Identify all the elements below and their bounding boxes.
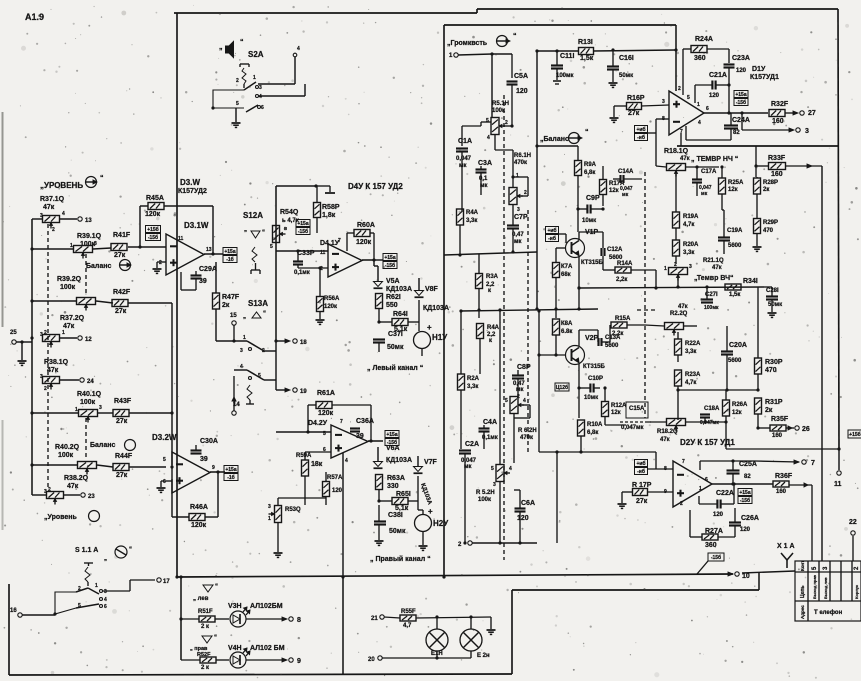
svg-text:Х 1 А: Х 1 А bbox=[777, 543, 795, 550]
svg-text:V2Р: V2Р bbox=[585, 335, 599, 342]
svg-text:R40.1Q: R40.1Q bbox=[77, 391, 102, 398]
svg-text:КТ315Б: КТ315Б bbox=[581, 260, 603, 266]
wire R47F to S13A bbox=[215, 309, 217, 341]
svg-text:R43F: R43F bbox=[114, 398, 132, 405]
wire transistor top rail bbox=[559, 233, 566, 235]
svg-text:5,1к: 5,1к bbox=[395, 505, 409, 512]
resistor R3A 2.2k bbox=[476, 274, 483, 289]
svg-text:2: 2 bbox=[44, 386, 47, 392]
svg-text:R59А: R59А bbox=[296, 453, 312, 459]
wire terminal 16 to switch bbox=[22, 614, 55, 616]
svg-text:-иб: -иб bbox=[637, 134, 645, 141]
svg-text:-1б: -1б bbox=[226, 256, 234, 263]
potentiometer R53Q bbox=[275, 506, 282, 523]
output level boxes D4.1Y bbox=[383, 254, 397, 261]
connector table rows bbox=[795, 571, 861, 573]
svg-text:АЛ102 БМ: АЛ102 БМ bbox=[250, 645, 285, 652]
lamp E2H bbox=[460, 629, 482, 651]
svg-text:+15б: +15б bbox=[147, 226, 159, 233]
wire left bus lower stubs bbox=[32, 494, 46, 496]
svg-text:2: 2 bbox=[517, 394, 520, 400]
wire bottom box left edge bbox=[511, 590, 513, 674]
svg-text:50мк: 50мк bbox=[389, 528, 406, 535]
svg-text:D1У: D1У bbox=[752, 66, 766, 73]
wire C25A loop bbox=[732, 474, 734, 484]
wire D4.2Y input bbox=[276, 431, 331, 433]
svg-text:V3Н: V3Н bbox=[228, 603, 242, 610]
svg-text:+15а: +15а bbox=[225, 467, 236, 473]
svg-text:470к: 470к bbox=[520, 435, 533, 441]
svg-text:47к: 47к bbox=[680, 156, 690, 162]
wire to terminal 10 bbox=[728, 572, 733, 576]
svg-text:120: 120 bbox=[516, 88, 528, 95]
svg-text:8: 8 bbox=[664, 466, 667, 472]
svg-text:0,047мк: 0,047мк bbox=[700, 420, 719, 426]
svg-text:R45A: R45A bbox=[146, 195, 164, 202]
resistor R56A 120k bbox=[317, 297, 324, 312]
svg-text:R51F: R51F bbox=[198, 609, 213, 615]
svg-text:120к: 120к bbox=[324, 304, 337, 310]
svg-text:С19А: С19А bbox=[727, 228, 743, 234]
svg-text:-15б: -15б bbox=[736, 99, 746, 106]
svg-text:2,2к: 2,2к bbox=[612, 331, 623, 337]
svg-text:2 к: 2 к bbox=[201, 624, 209, 630]
ground at D3.1W + input bbox=[157, 261, 166, 263]
svg-text:Конт: Конт bbox=[800, 560, 805, 571]
S12A spring squiggle bbox=[252, 247, 257, 262]
wire R6.1H wiper loop bbox=[521, 195, 528, 197]
svg-text:R32F: R32F bbox=[771, 101, 789, 108]
svg-text:360: 360 bbox=[705, 542, 717, 549]
svg-text:4: 4 bbox=[345, 458, 348, 464]
wire R5.1H wiper to C5A bus bbox=[503, 125, 512, 127]
svg-text:19: 19 bbox=[300, 389, 307, 395]
wire R16P to + input bbox=[614, 105, 627, 107]
svg-text:4: 4 bbox=[297, 46, 300, 52]
svg-text:С9Р: С9Р bbox=[586, 195, 600, 202]
svg-text:12к: 12к bbox=[728, 187, 738, 193]
small cap to ground top right of S12A bus bbox=[316, 185, 330, 187]
terminal 24 bbox=[80, 378, 84, 382]
wire LED feeder vertical bbox=[180, 577, 182, 660]
svg-text:100к: 100к bbox=[478, 497, 491, 503]
S1.1A actuator bracket bbox=[84, 562, 93, 564]
svg-text:7: 7 bbox=[811, 460, 815, 467]
svg-text:27: 27 bbox=[808, 110, 816, 117]
svg-text:R15А: R15А bbox=[615, 316, 631, 322]
wire R17P to + input bbox=[647, 491, 673, 493]
svg-text:7: 7 bbox=[338, 238, 341, 244]
terminal 12 bbox=[78, 336, 82, 340]
resistor R58P 1.8k bbox=[314, 203, 321, 218]
svg-text:100к: 100к bbox=[58, 452, 74, 459]
diode V6A KD103A bbox=[377, 447, 379, 461]
svg-text:R2.2Q: R2.2Q bbox=[670, 311, 688, 317]
wire middle box top edge bbox=[444, 24, 676, 26]
boxed label +15 at right edge bbox=[848, 430, 861, 438]
svg-text:1: 1 bbox=[75, 407, 78, 413]
svg-text:4: 4 bbox=[509, 466, 512, 472]
svg-text:R38.2Q: R38.2Q bbox=[64, 475, 89, 482]
speaker icon bbox=[226, 46, 230, 53]
svg-text:+: + bbox=[427, 323, 432, 332]
svg-text:К8А: К8А bbox=[561, 321, 573, 327]
wire bottom box top edge bbox=[512, 589, 759, 591]
connector X1A fork symbol bbox=[786, 560, 788, 568]
resistor R20A 3.3k bbox=[673, 240, 680, 256]
wire R39.2Q row bbox=[32, 300, 76, 302]
wire R59A/R57A connections bbox=[304, 452, 306, 460]
wire R33F left from supply bbox=[755, 146, 757, 177]
svg-text:С11І: С11І bbox=[560, 53, 574, 60]
wire top frame step bbox=[476, 9, 478, 13]
svg-text:R25А: R25А bbox=[728, 180, 744, 186]
svg-text:+15а: +15а bbox=[739, 490, 750, 496]
svg-text:С36А: С36А bbox=[356, 418, 374, 425]
svg-text:R30Р: R30Р bbox=[765, 359, 783, 366]
wire main left vertical bus bbox=[176, 13, 178, 577]
svg-text:К157УД2: К157УД2 bbox=[178, 188, 207, 195]
wire R40.2Q row bbox=[32, 464, 77, 466]
ground left of R17P bbox=[621, 492, 623, 503]
output level boxes D3.1W bbox=[223, 248, 237, 255]
svg-text:47к: 47к bbox=[712, 265, 722, 271]
svg-text:D4.1У: D4.1У bbox=[320, 240, 340, 247]
knob icon S1.1A bbox=[115, 546, 127, 558]
svg-text:С20А: С20А bbox=[729, 342, 747, 349]
svg-text:160: 160 bbox=[776, 489, 787, 495]
resistor R63A 330 bbox=[376, 475, 383, 490]
wire V2P base bbox=[539, 354, 566, 356]
wire R42F to D3.2W input bus bbox=[128, 302, 172, 304]
svg-text:3: 3 bbox=[689, 264, 692, 270]
svg-text:6: 6 bbox=[706, 106, 709, 112]
svg-text:„Громквсть: „Громквсть bbox=[447, 40, 488, 47]
svg-text:2: 2 bbox=[524, 190, 527, 196]
wire D4.2Y pin4 to supply rail bbox=[342, 453, 344, 577]
svg-text:R35F: R35F bbox=[771, 416, 789, 423]
svg-text:330: 330 bbox=[387, 483, 399, 490]
wire LED V4H to terminal 9 bbox=[246, 659, 283, 661]
svg-text:+: + bbox=[428, 507, 433, 516]
svg-text:R4А: R4А bbox=[487, 325, 500, 331]
svg-text:С16І: С16І bbox=[619, 55, 634, 62]
svg-text:18к: 18к bbox=[311, 461, 323, 468]
wire D3.1W output bbox=[204, 253, 223, 255]
svg-text:1,8к: 1,8к bbox=[322, 212, 336, 219]
svg-text:82: 82 bbox=[733, 130, 740, 136]
svg-text:R20А: R20А bbox=[683, 242, 699, 248]
wire R24A loop bbox=[683, 48, 691, 50]
wire bass pot2 row bbox=[648, 421, 666, 423]
svg-text:1: 1 bbox=[516, 173, 519, 179]
svg-text:S2A: S2A bbox=[248, 50, 264, 59]
svg-text:6: 6 bbox=[261, 105, 264, 111]
svg-text:3,3к: 3,3к bbox=[466, 218, 477, 224]
svg-text:Цепь: Цепь bbox=[800, 585, 806, 598]
wire D2Y output bbox=[712, 483, 773, 485]
svg-text:“: “ bbox=[513, 33, 517, 40]
svg-text:D4.2У: D4.2У bbox=[308, 420, 328, 427]
svg-text:Баланс: Баланс bbox=[86, 263, 111, 270]
svg-text:R44F: R44F bbox=[115, 453, 133, 460]
svg-text:R56А: R56А bbox=[324, 296, 340, 302]
output level boxes D4.2Y bbox=[385, 431, 399, 438]
svg-text:4: 4 bbox=[523, 398, 526, 404]
svg-text:3: 3 bbox=[240, 348, 243, 354]
svg-text:3,3к: 3,3к bbox=[685, 349, 696, 355]
connector table columns bbox=[807, 561, 809, 621]
wire R33F row bbox=[756, 165, 768, 167]
power pin boxes D3.1W bbox=[146, 226, 161, 233]
svg-text:16: 16 bbox=[10, 608, 17, 614]
svg-text:6,8к: 6,8к bbox=[584, 170, 595, 176]
wire R38.1Q to terminal 24 bbox=[60, 379, 79, 381]
svg-text:39: 39 bbox=[200, 456, 208, 463]
svg-text:3,3к: 3,3к bbox=[467, 384, 478, 390]
label LEV channel symbol bbox=[203, 585, 213, 592]
svg-text:47к: 47к bbox=[63, 323, 75, 330]
svg-text:КТ315Б: КТ315Б bbox=[583, 364, 605, 370]
svg-text:1: 1 bbox=[243, 335, 246, 341]
svg-text:3: 3 bbox=[104, 589, 107, 595]
svg-text:4,7к: 4,7к bbox=[683, 222, 694, 228]
svg-text:120: 120 bbox=[713, 512, 724, 518]
LED V4H AL102BM bbox=[230, 652, 246, 668]
wire right vertical to connector bbox=[821, 166, 823, 561]
svg-text:25: 25 bbox=[10, 330, 17, 336]
wire volume bus vertical bbox=[491, 54, 493, 118]
svg-text:6: 6 bbox=[163, 479, 166, 485]
svg-text:V6А: V6А bbox=[386, 445, 400, 452]
wire D3.2W output bbox=[210, 471, 225, 473]
svg-text:R 6.2Н: R 6.2Н bbox=[518, 428, 537, 434]
svg-text:R10А: R10А bbox=[587, 422, 603, 428]
svg-text:С22А: С22А bbox=[716, 490, 734, 497]
wire R5.2H to terminal 2 rail bbox=[499, 482, 501, 543]
svg-text:S12A: S12A bbox=[243, 211, 263, 220]
wire middle box left edge bbox=[443, 25, 445, 577]
svg-text:120к: 120к bbox=[356, 239, 372, 246]
wire output vertical to connector bbox=[811, 485, 813, 561]
resistor R47F 2k bbox=[213, 293, 220, 309]
svg-text:С4А: С4А bbox=[483, 419, 497, 426]
svg-text:100к: 100к bbox=[80, 399, 96, 406]
svg-text:13: 13 bbox=[85, 218, 92, 224]
wire R36F output to right bbox=[789, 484, 812, 486]
resistor R10A 6.8k bbox=[578, 420, 585, 436]
svg-text:“: “ bbox=[214, 635, 217, 641]
diode V5A KD103A bbox=[373, 260, 375, 266]
svg-text:10: 10 bbox=[742, 573, 750, 580]
wire treble pot2 row bbox=[645, 325, 664, 326]
svg-text:С2А: С2А bbox=[465, 441, 479, 448]
svg-text:20: 20 bbox=[368, 657, 375, 663]
resistor R7A 68k bbox=[553, 263, 560, 278]
wire horizontal to border node bbox=[726, 448, 839, 450]
wire lamp top rail bbox=[384, 617, 400, 618]
svg-text:R36F: R36F bbox=[775, 473, 793, 480]
svg-text:A1.9: A1.9 bbox=[25, 12, 44, 22]
wire left bus vertical bbox=[31, 219, 33, 495]
svg-text:С15А: С15А bbox=[629, 406, 645, 412]
svg-text:12к: 12к bbox=[732, 410, 742, 416]
wire C21A loop bbox=[695, 84, 712, 86]
svg-text:R58Р: R58Р bbox=[322, 204, 340, 211]
terminal 23 bbox=[81, 493, 85, 497]
dashed gang line volume pots bbox=[503, 95, 505, 560]
svg-text:„Уровень: „Уровень bbox=[44, 514, 77, 521]
svg-text:22: 22 bbox=[849, 519, 857, 526]
wire V1P emitter down bbox=[578, 256, 580, 288]
svg-text:-1б: -1б bbox=[227, 474, 235, 481]
svg-text:R16Р: R16Р bbox=[627, 95, 645, 102]
svg-text:47к: 47к bbox=[47, 367, 59, 374]
svg-text:4: 4 bbox=[240, 364, 243, 370]
svg-text:R5.1Н: R5.1Н bbox=[492, 101, 509, 107]
svg-text:100мк: 100мк bbox=[556, 73, 573, 79]
resistor R30P 470 bbox=[755, 358, 762, 374]
svg-text:Н1У: Н1У bbox=[432, 333, 448, 342]
op-amp D4.1Y bbox=[328, 244, 362, 277]
svg-text:R28Р: R28Р bbox=[763, 180, 778, 186]
wire R9A down bbox=[577, 176, 579, 232]
svg-text:5: 5 bbox=[505, 398, 508, 404]
svg-text:E1Н: E1Н bbox=[431, 651, 443, 657]
wire bottom of output box bbox=[677, 145, 838, 147]
wire R38.2Q to terminal 23 bbox=[64, 494, 80, 496]
wire R45A feedback loop bbox=[140, 205, 148, 207]
terminal 17 bbox=[157, 578, 161, 582]
svg-text:R22А: R22А bbox=[685, 341, 701, 347]
svg-text:V4Н: V4Н bbox=[228, 645, 242, 652]
wire R37.1Q to terminal 13 bbox=[60, 218, 77, 220]
svg-text:V8F: V8F bbox=[425, 286, 439, 293]
wire R7A to mid rail bbox=[555, 278, 557, 309]
svg-text:5600: 5600 bbox=[728, 243, 742, 249]
svg-text:R42F: R42F bbox=[113, 289, 131, 296]
svg-text:27к: 27к bbox=[116, 418, 128, 425]
svg-text:„ Правый канал “: „ Правый канал “ bbox=[370, 555, 431, 563]
LED V3H AL102BM bbox=[230, 611, 246, 627]
svg-text:47к: 47к bbox=[678, 304, 688, 310]
lamp E1H bbox=[426, 629, 448, 651]
wire S2A contact 4 to right rail bbox=[259, 95, 305, 97]
svg-text:0,047мк: 0,047мк bbox=[621, 425, 643, 431]
svg-text:-15б: -15б bbox=[148, 234, 158, 241]
svg-text:„ лев: „ лев bbox=[193, 596, 209, 602]
resistor R12A 12k bbox=[602, 402, 609, 417]
svg-text:21: 21 bbox=[371, 616, 378, 622]
svg-text:2: 2 bbox=[505, 120, 508, 126]
svg-text:10мк: 10мк bbox=[584, 395, 598, 401]
switch S2A contact group bbox=[243, 84, 245, 88]
svg-text:Т елефон: Т елефон bbox=[814, 609, 843, 616]
svg-text:V5А: V5А bbox=[386, 278, 400, 285]
svg-text:R34І: R34І bbox=[743, 278, 758, 285]
wire C22A loop bbox=[699, 503, 717, 505]
svg-text:С3А: С3А bbox=[478, 160, 492, 167]
S13A contact set 1 bbox=[233, 335, 235, 341]
svg-text:мк: мк bbox=[701, 191, 708, 197]
svg-text:100мк: 100мк bbox=[704, 305, 719, 311]
wire V2P emitter down bbox=[578, 364, 580, 418]
wire output down through R47F bbox=[215, 262, 217, 293]
wire lamp bottom rail bbox=[382, 657, 471, 659]
svg-text:1,5к: 1,5к bbox=[580, 55, 594, 62]
svg-text:120: 120 bbox=[736, 68, 747, 74]
scan edge artifact left bbox=[2, 112, 4, 327]
power boxes D1Y bbox=[734, 91, 748, 98]
svg-text:3: 3 bbox=[94, 241, 97, 247]
connector table frame bbox=[795, 561, 861, 621]
svg-text:82: 82 bbox=[744, 474, 751, 480]
svg-text:120: 120 bbox=[332, 488, 343, 494]
boxed label -15b lower bbox=[708, 553, 724, 561]
svg-text:„Темвр ВЧ“: „Темвр ВЧ“ bbox=[694, 275, 734, 282]
svg-text:R 5.2Н: R 5.2Н bbox=[476, 490, 495, 496]
wire top frame left section bbox=[174, 12, 477, 14]
resistor R29P 470 bbox=[754, 219, 761, 234]
potentiometer R6.1H bbox=[509, 188, 517, 205]
svg-text:КД103А: КД103А bbox=[423, 305, 449, 312]
svg-text:2: 2 bbox=[52, 227, 55, 233]
svg-text:1,5к: 1,5к bbox=[729, 292, 740, 298]
ground left of R16P bbox=[613, 106, 615, 117]
svg-text:-15б: -15б bbox=[711, 554, 721, 561]
svg-text:R24А: R24А bbox=[695, 36, 713, 43]
wire R27A loop bbox=[718, 536, 735, 538]
svg-text:50мк: 50мк bbox=[619, 73, 633, 79]
svg-text:+иб: +иб bbox=[636, 460, 645, 467]
wire R5.1H bottom to R6.1H bbox=[494, 135, 496, 150]
resistor R4A' 2.2k bbox=[477, 324, 484, 339]
svg-text:С7Р: С7Р bbox=[514, 214, 528, 221]
svg-text:„ Левый канал “: „ Левый канал “ bbox=[367, 364, 423, 372]
svg-text:R55F: R55F bbox=[401, 609, 416, 615]
svg-text:С17А: С17А bbox=[701, 169, 717, 175]
op-amp D4.2Y bbox=[331, 425, 368, 458]
svg-text:120к: 120к bbox=[318, 410, 334, 417]
svg-text:R12А: R12А bbox=[611, 403, 627, 409]
wire pin2 feed vertical bbox=[675, 25, 677, 91]
resistor R31P 2k bbox=[755, 398, 762, 414]
svg-text:R31Р: R31Р bbox=[765, 399, 783, 406]
svg-text:4: 4 bbox=[487, 135, 490, 141]
svg-text:470: 470 bbox=[765, 367, 777, 374]
svg-text:1: 1 bbox=[664, 266, 667, 272]
svg-text:2: 2 bbox=[680, 501, 683, 507]
svg-text:„: „ bbox=[219, 44, 223, 51]
S13A spring squiggle 2 bbox=[247, 385, 252, 400]
wire LED V3H to terminal 8 bbox=[246, 618, 283, 620]
resistor R57A 120 bbox=[323, 482, 330, 497]
svg-text:18: 18 bbox=[300, 340, 307, 346]
potentiometer R6.2H 470k bbox=[510, 397, 518, 414]
svg-text:“: “ bbox=[215, 584, 218, 590]
resistor R62I 550 bbox=[376, 294, 383, 309]
svg-text:R2А: R2А bbox=[467, 376, 480, 382]
svg-text:С30А: С30А bbox=[200, 438, 218, 445]
svg-text:2,2к: 2,2к bbox=[616, 277, 627, 283]
wire rail end corner bbox=[490, 617, 492, 629]
svg-text:С8Р: С8Р bbox=[517, 364, 531, 371]
svg-text:470к: 470к bbox=[514, 160, 527, 166]
svg-text:8: 8 bbox=[297, 617, 301, 624]
svg-text:6: 6 bbox=[705, 477, 708, 483]
wire S2A left loop bbox=[213, 90, 244, 108]
ground near terminal 25 bbox=[21, 342, 23, 360]
